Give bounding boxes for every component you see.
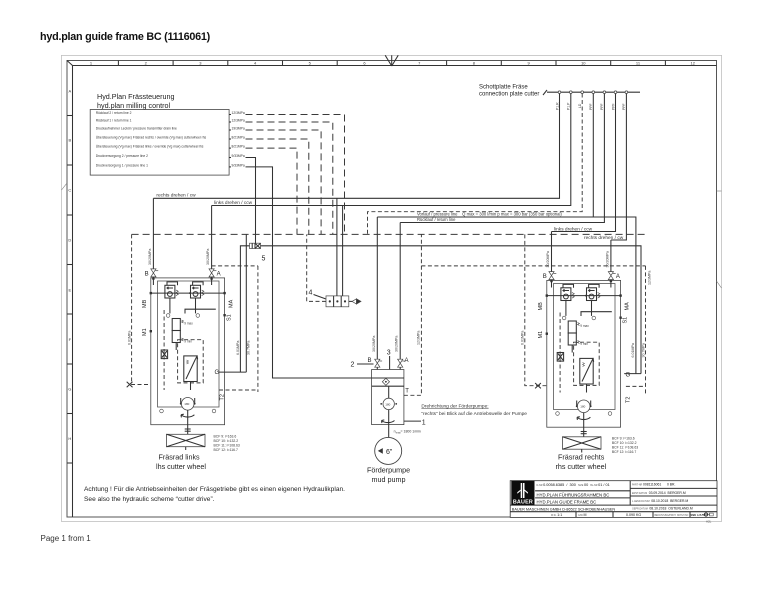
svg-text:6.01MPa: 6.01MPa [631, 343, 635, 357]
svg-text:G/W M: G/W M [578, 513, 586, 517]
svg-text:12: 12 [690, 61, 695, 66]
svg-text:BAUER: BAUER [513, 499, 533, 505]
svg-text:B: B [543, 274, 547, 280]
svg-text:Hyd.Plan Frässteuerung: Hyd.Plan Frässteuerung [97, 92, 175, 101]
svg-text:BCF 10: i=132.2: BCF 10: i=132.2 [612, 441, 637, 445]
svg-text:LD: LD [578, 103, 582, 108]
svg-text:BCF 10: i=132.2: BCF 10: i=132.2 [214, 439, 239, 443]
svg-text:BCF 9: i=163.6: BCF 9: i=163.6 [214, 435, 237, 439]
svg-text:30/20MPa: 30/20MPa [206, 249, 210, 265]
svg-text:6”: 6” [386, 449, 393, 456]
svg-text:rechts drehen / cw: rechts drehen / cw [584, 235, 624, 241]
svg-text:30/20MPa: 30/20MPa [148, 249, 152, 265]
svg-text:links drehen / ccw: links drehen / ccw [554, 226, 593, 232]
svg-text:30/20MPa: 30/20MPa [546, 251, 550, 267]
svg-text:E: E [68, 288, 71, 293]
svg-text:12/3MPa: 12/3MPa [417, 331, 421, 345]
svg-text:T2: T2 [626, 397, 632, 403]
svg-text:HYD.PLAN GUIDE FRAME BC: HYD.PLAN GUIDE FRAME BC [537, 500, 597, 505]
svg-text:0.090 KG: 0.090 KG [626, 513, 641, 517]
svg-text:Schottplatte Fräse: Schottplatte Fräse [479, 85, 528, 91]
svg-text:A: A [405, 358, 409, 364]
svg-text:1: 1 [422, 419, 426, 426]
svg-text:10: 10 [581, 61, 586, 66]
svg-text:D-NR 0.0058.6385 / 300 SIZE: D-NR 0.0058.6385 / 300 SIZE 00 BL-NR 01 … [537, 483, 610, 487]
svg-text:T: T [405, 389, 409, 395]
svg-text:mud pump: mud pump [372, 475, 406, 484]
svg-text:BCF 11: i=108.63: BCF 11: i=108.63 [214, 444, 240, 448]
svg-text:B: B [145, 272, 149, 278]
svg-text:BCF 9: i=163.6: BCF 9: i=163.6 [612, 437, 635, 441]
svg-text:ISO 128-M: ISO 128-M [692, 513, 706, 517]
svg-text:Übersteuerung (Vg max) Fräsrad: Übersteuerung (Vg max) Fräsrad rechts / … [96, 136, 207, 140]
svg-text:Vorlauf / pressure line Q m: Vorlauf / pressure line Q max = 300 l/mi… [417, 212, 562, 217]
svg-text:BCF 12: i=116.7: BCF 12: i=116.7 [612, 450, 636, 454]
svg-text:PPF: PPF [622, 103, 626, 110]
svg-text:6.01MPa: 6.01MPa [236, 341, 240, 355]
svg-text:rechts drehen / cw: rechts drehen / cw [156, 193, 196, 199]
svg-text:12/3MPa: 12/3MPa [232, 111, 245, 115]
svg-text:30.7MPa: 30.7MPa [246, 341, 250, 355]
svg-text:A: A [616, 274, 620, 280]
svg-text:30/20MPa: 30/20MPa [372, 336, 376, 352]
svg-text:Page 1 from 1: Page 1 from 1 [41, 534, 92, 543]
svg-text:P1.P: P1.P [567, 102, 571, 110]
svg-text:30/20MPa: 30/20MPa [395, 336, 399, 352]
svg-text:9/33MPa: 9/33MPa [232, 154, 245, 158]
svg-text:GEPR.DATUM 08.10.2018 OSTERL: GEPR.DATUM 08.10.2018 OSTERLAND.M [632, 507, 693, 511]
svg-text:hyd.plan milling control: hyd.plan milling control [97, 101, 171, 110]
svg-text:BCF 12: i=116.7: BCF 12: i=116.7 [214, 448, 238, 452]
svg-text:BCF 11: i=108.63: BCF 11: i=108.63 [612, 446, 638, 450]
svg-text:Drehrichtung der Förderpumpe:: Drehrichtung der Förderpumpe: [421, 404, 488, 410]
svg-text:6.01MPa: 6.01MPa [521, 331, 525, 345]
svg-text:PPF: PPF [611, 103, 615, 110]
svg-text:BENUTZUNG/PROT. NOTIZ ISO 160: BENUTZUNG/PROT. NOTIZ ISO 16016 [655, 515, 697, 517]
svg-text:B: B [68, 138, 71, 143]
svg-text:G: G [68, 387, 71, 392]
svg-text:See also the hydraulic scheme: See also the hydraulic scheme “cutter dr… [84, 496, 215, 503]
svg-text:PPF: PPF [600, 103, 604, 110]
svg-text:L.AEND.DATUM 08.10.2018 BERG: L.AEND.DATUM 08.10.2018 BERGER.M [632, 499, 688, 503]
svg-text:Druckaufnehmer Lecköl / pressu: Druckaufnehmer Lecköl / pressure transmi… [96, 127, 177, 131]
svg-text:= 1800 1/min: = 1800 1/min [401, 430, 421, 434]
svg-text:Achtung ! Für die Antriebseinh: Achtung ! Für die Antriebseinheiten der … [84, 486, 345, 493]
svg-text:Druckversorgung 1 / pressure l: Druckversorgung 1 / pressure line 1 [96, 164, 148, 168]
svg-text:D: D [68, 238, 71, 243]
svg-text:19/3MPa: 19/3MPa [232, 127, 245, 131]
svg-text:3: 3 [387, 350, 391, 357]
svg-text:Fräsrad links: Fräsrad links [159, 452, 201, 461]
svg-text:8/21MPa: 8/21MPa [232, 136, 245, 140]
svg-text:A: A [217, 272, 221, 278]
svg-text:A: A [68, 89, 71, 94]
svg-text:P1.R: P1.R [555, 102, 559, 110]
svg-text:Rücklauf 2 / return line 2: Rücklauf 2 / return line 2 [96, 111, 132, 115]
svg-text:4: 4 [309, 290, 313, 297]
svg-text:9/33MPa: 9/33MPa [232, 164, 245, 168]
svg-text:30/20MPa: 30/20MPa [606, 251, 610, 267]
svg-text:BAUER MASCHINEN GMBH D-86522: BAUER MASCHINEN GMBH D-86522 SCHROBENHAU… [512, 507, 616, 511]
svg-text:“rechts” bei Blick auf die Ant: “rechts” bei Blick auf die Antriebswelle… [421, 411, 527, 417]
svg-text:HYD.PLAN FÜHRUNGSRAHMEN BC: HYD.PLAN FÜHRUNGSRAHMEN BC [537, 492, 610, 497]
svg-text:30.7MPa: 30.7MPa [641, 343, 645, 357]
svg-text:C: C [68, 188, 71, 193]
svg-text:2: 2 [351, 361, 355, 368]
svg-text:Rücklauf / return line: Rücklauf / return line [417, 217, 456, 222]
svg-text:H: H [68, 436, 71, 441]
svg-text:Fräsrad rechts: Fräsrad rechts [558, 452, 605, 461]
svg-text:G: G [215, 370, 220, 376]
svg-text:Übersteuerung (Vg max) Fräsrad: Übersteuerung (Vg max) Fräsrad links / o… [96, 145, 204, 149]
svg-text:rhs cutter wheel: rhs cutter wheel [556, 462, 607, 471]
svg-text:PPF: PPF [589, 103, 593, 110]
svg-text:Förderpumpe: Förderpumpe [367, 466, 410, 475]
svg-text:Druckversorgung 2 / pressure l: Druckversorgung 2 / pressure line 2 [96, 154, 148, 158]
svg-text:12/3MPa: 12/3MPa [648, 271, 652, 285]
svg-text:A2L: A2L [706, 520, 712, 524]
svg-text:hyd.plan guide frame BC (11160: hyd.plan guide frame BC (1116061) [40, 31, 211, 43]
svg-text:PART-NR 0081116061 0 BR.: PART-NR 0081116061 0 BR. [632, 483, 675, 487]
svg-text:M.St. 1:1: M.St. 1:1 [551, 513, 562, 517]
svg-text:5: 5 [262, 256, 266, 263]
svg-text:ERST.DATUM 03.09.2014 BERGER: ERST.DATUM 03.09.2014 BERGER.M [632, 491, 686, 495]
svg-text:Rücklauf 1 / return line 1: Rücklauf 1 / return line 1 [96, 119, 132, 123]
svg-text:lhs cutter wheel: lhs cutter wheel [156, 462, 206, 471]
svg-text:connection plate cutter: connection plate cutter [479, 91, 539, 97]
svg-text:links drehen / ccw: links drehen / ccw [214, 200, 253, 206]
svg-text:6.01MPa: 6.01MPa [128, 331, 132, 345]
svg-text:8/21MPa: 8/21MPa [232, 145, 245, 149]
svg-text:T2: T2 [220, 394, 226, 400]
svg-text:180: 180 [385, 402, 390, 406]
svg-text:12/3MPa: 12/3MPa [232, 119, 245, 123]
svg-text:B: B [368, 358, 372, 364]
